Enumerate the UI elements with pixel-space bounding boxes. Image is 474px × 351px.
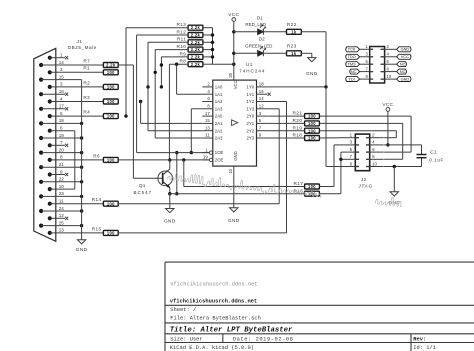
svg-text:7: 7: [60, 140, 63, 145]
resistor R19: [292, 125, 319, 133]
J1 pin 23: [39, 191, 83, 198]
resistor R23: [287, 44, 302, 56]
J2 pin 7: [342, 154, 360, 159]
header pin 10: [381, 74, 397, 79]
svg-text:100: 100: [308, 121, 316, 126]
svg-text:100: 100: [107, 201, 115, 206]
resistor R8: [180, 59, 203, 67]
svg-text:R2: R2: [83, 80, 90, 85]
label NC (header pin 8): [397, 69, 407, 74]
resistor R21: [292, 111, 319, 119]
svg-text:TCK: TCK: [348, 48, 356, 52]
svg-text:100: 100: [308, 114, 316, 119]
svg-text:J1: J1: [77, 39, 83, 44]
svg-text:R23: R23: [287, 44, 297, 49]
svg-text:vfichcikicshuusrch.ddns.net: vfichcikicshuusrch.ddns.net: [170, 299, 257, 305]
J2 pin 9: [342, 161, 360, 166]
svg-text:GND: GND: [164, 219, 176, 224]
svg-text:13: 13: [205, 125, 210, 130]
J1 pin 17: [39, 104, 68, 111]
svg-text:100: 100: [107, 84, 115, 89]
wire R12 right lead: [203, 34, 213, 36]
label GND (header pin 2): [397, 47, 411, 52]
svg-text:100: 100: [107, 114, 115, 119]
U1 pin 20 VCC: [228, 72, 233, 77]
svg-text:100: 100: [107, 99, 115, 104]
svg-text:RED_LED: RED_LED: [245, 22, 267, 27]
wire 2Y1 to R20: [267, 122, 304, 124]
J1 pin 11: [48, 199, 104, 206]
J1 pin 22: [39, 177, 83, 184]
wire R11 right lead: [203, 41, 213, 43]
header pin 9: [360, 74, 374, 79]
resistor R16: [293, 188, 319, 196]
J1 pin 1: [48, 53, 69, 60]
resistor R1: [83, 66, 118, 75]
svg-text:U1: U1: [246, 62, 253, 67]
resistor R9: [180, 51, 203, 59]
label VCC (header pin 4): [397, 54, 411, 59]
wire R7 to Q1 base: [118, 65, 156, 178]
svg-text:2Y2: 2Y2: [246, 128, 254, 133]
U1 pin 16 1Y1: [246, 89, 267, 97]
J1 pin 6: [48, 126, 75, 133]
svg-text:20: 20: [59, 147, 65, 152]
svg-text:GND: GND: [401, 48, 410, 52]
svg-text:17: 17: [59, 104, 65, 109]
J1 pin 21: [39, 162, 83, 169]
J2 pin 8: [366, 154, 384, 159]
svg-text:2: 2: [60, 67, 63, 72]
J1 pin 4: [48, 96, 104, 103]
U1 pin16 1Y1 no-connect: [268, 93, 271, 96]
resistor R2: [83, 80, 118, 89]
U1 pin 12 1Y3: [246, 104, 267, 112]
wire R8 branch to 1A1 feed: [177, 64, 203, 94]
ground (J2/C1): [388, 167, 400, 205]
svg-text:TDI: TDI: [349, 77, 355, 81]
svg-text:1A2: 1A2: [215, 99, 223, 104]
svg-text:2.2k: 2.2k: [191, 33, 201, 38]
wire 1OE feed: [137, 152, 210, 154]
resistor R3: [83, 95, 118, 104]
wire GND bus from pin 15 down: [81, 80, 83, 226]
svg-text:R18: R18: [292, 133, 302, 138]
label TDO (header pin 3): [346, 54, 360, 59]
svg-text:18: 18: [259, 82, 264, 87]
svg-text:10: 10: [59, 184, 65, 189]
U1 pin 2 1A0: [202, 82, 223, 90]
resistor R6: [93, 153, 118, 162]
svg-text:0.1uF: 0.1uF: [429, 157, 444, 162]
U1 pin 8 1A3: [202, 104, 223, 112]
U1 pin 10 GND stub: [228, 166, 234, 174]
J1 pin 14: [39, 60, 103, 67]
svg-text:TDO: TDO: [348, 55, 356, 59]
resistor R18: [292, 133, 319, 141]
title block frame: [165, 262, 474, 351]
svg-text:vfichcikicshuusrch.ddns.net: vfichcikicshuusrch.ddns.net: [170, 282, 257, 288]
svg-text:3: 3: [60, 82, 63, 87]
LED D1 RED_LED: [234, 16, 286, 35]
svg-text:GREEN_LED: GREEN_LED: [245, 43, 273, 48]
svg-text:2Y0: 2Y0: [246, 114, 254, 119]
wire R16 to J2 pin5/pin7: [319, 152, 342, 194]
resistor R7: [83, 58, 118, 67]
wire J2 pin4 row to C1: [384, 144, 421, 146]
svg-text:GND: GND: [233, 151, 238, 161]
wire R14 row to 1Y3: [118, 203, 279, 205]
svg-text:1A1: 1A1: [215, 92, 223, 97]
LED D2 GREEN_LED: [234, 36, 286, 56]
wire R10 drop to 2A3 net: [154, 50, 203, 138]
svg-text:20: 20: [228, 72, 233, 77]
svg-text:File: Altera ByteBlaster.sch: File: Altera ByteBlaster.sch: [170, 316, 261, 322]
svg-text:23: 23: [59, 191, 65, 196]
J1 pin 5: [48, 111, 104, 118]
svg-text:2.2k: 2.2k: [191, 40, 201, 45]
svg-text:1Y1: 1Y1: [246, 92, 254, 97]
svg-text:1k: 1k: [291, 51, 297, 56]
svg-text:R20: R20: [292, 118, 302, 123]
header pin 1: [360, 44, 374, 49]
svg-text:R4: R4: [83, 110, 90, 115]
svg-text:R14: R14: [92, 197, 102, 202]
svg-text:NC: NC: [351, 70, 357, 74]
U1 pin 11 2A3: [202, 133, 223, 141]
svg-text:18: 18: [59, 118, 65, 123]
svg-text:Title: Alter LPT ByteBlaster: Title: Alter LPT ByteBlaster: [170, 326, 293, 334]
svg-text:Rev:: Rev:: [413, 337, 426, 343]
svg-text:22: 22: [59, 177, 65, 182]
wire R23 to ground: [301, 52, 312, 54]
J2 pin 4: [366, 140, 384, 145]
svg-text:100: 100: [107, 70, 115, 75]
J1 pin 18: [39, 118, 83, 125]
svg-text:VCC: VCC: [228, 12, 239, 17]
svg-text:11: 11: [205, 133, 210, 138]
svg-text:2Y3: 2Y3: [246, 136, 254, 141]
wire R9 right lead: [203, 56, 213, 58]
svg-text:D2: D2: [259, 36, 265, 41]
svg-text:R12: R12: [176, 29, 186, 34]
wire 1OE to emitter link: [175, 151, 178, 195]
svg-text:VCC: VCC: [233, 80, 238, 89]
J1 pin 9: [48, 169, 69, 176]
label TCK (header pin 1): [346, 47, 360, 52]
svg-text:NC: NC: [400, 62, 406, 66]
wire 2Y2 to R19: [267, 130, 304, 132]
svg-text:R7: R7: [83, 58, 90, 63]
svg-text:16: 16: [259, 89, 264, 94]
wire R20 to J2 pin8: [319, 123, 402, 159]
connector J2 JTAG body: [355, 134, 373, 188]
ground (Q1 emitter): [164, 209, 176, 224]
U1 pin 19 2OE: [202, 155, 223, 163]
svg-text:1k: 1k: [291, 29, 297, 34]
svg-text:R8: R8: [180, 59, 187, 64]
resistor R20: [292, 118, 319, 126]
wire R21 to J2 pin6: [319, 116, 411, 152]
wire R13 right lead: [203, 27, 213, 29]
resistor R22: [287, 22, 302, 34]
wire 1OE-emitter link row: [170, 193, 305, 195]
svg-text:2.2k: 2.2k: [191, 47, 201, 52]
J1 pin 15: [39, 74, 82, 81]
U1 pin 3 2Y0: [246, 111, 267, 119]
svg-text:12: 12: [59, 213, 65, 218]
wire R17 to J2 pin3: [319, 145, 341, 187]
svg-text:10: 10: [372, 161, 377, 166]
J2 pin 10: [366, 161, 384, 166]
IC U1 74HC244 body: [213, 62, 266, 166]
svg-text:R21: R21: [292, 111, 302, 116]
svg-text:JTAG: JTAG: [357, 184, 372, 189]
svg-text:R6: R6: [93, 153, 100, 158]
svg-text:24: 24: [59, 206, 65, 211]
J1 pin 8: [48, 155, 104, 162]
U1 pin 1 1OE: [202, 147, 223, 155]
connector top-right 2x5 header body: [370, 47, 385, 84]
resistor R17: [293, 181, 319, 189]
svg-text:R13: R13: [176, 22, 186, 27]
header pin 3: [360, 52, 374, 57]
U1 pin 4 1A1: [202, 89, 223, 97]
svg-text:1Y3: 1Y3: [246, 106, 254, 111]
svg-text:TMS: TMS: [348, 62, 356, 66]
ground (DB25 bus): [76, 226, 88, 253]
U1 pin 5 2Y1: [246, 118, 267, 126]
svg-text:19: 19: [59, 133, 65, 138]
header pin 6: [381, 59, 397, 64]
wire J2 pin10 row to C1: [384, 165, 421, 168]
svg-text:GND: GND: [306, 71, 318, 76]
wire R13 drop to 2A0 net: [124, 28, 188, 118]
wire pull-up VCC bus: [211, 28, 236, 66]
wire 1Y0 to LED/J2 pin9: [267, 85, 355, 166]
wire Q1 collector to 2OE net: [168, 158, 171, 169]
wire R11 drop to 2A2 net: [146, 42, 202, 130]
label NC (header pin 6): [397, 62, 407, 67]
label GND (header pin 10): [397, 77, 411, 82]
wire R9 drop to 1A0 net: [160, 57, 188, 89]
svg-text:NC: NC: [400, 70, 406, 74]
svg-text:GND: GND: [76, 247, 88, 252]
svg-text:1A3: 1A3: [215, 106, 223, 111]
svg-text:1: 1: [60, 53, 63, 58]
wire R8 right lead: [203, 63, 213, 65]
wire U1 pin10 to ground: [233, 173, 235, 208]
wire 1Y3 to R14 row: [267, 109, 279, 204]
resistor R11: [177, 37, 203, 45]
svg-text:16: 16: [59, 89, 65, 94]
wire R6 to 2OE and R17 branch: [118, 158, 304, 186]
svg-text:21: 21: [59, 162, 65, 167]
svg-text:1Y0: 1Y0: [246, 85, 254, 90]
svg-text:100: 100: [107, 231, 115, 236]
svg-text:R1: R1: [83, 66, 90, 71]
wire R8 drop to 2OE net: [169, 63, 188, 160]
header pin 8: [381, 67, 397, 72]
wire R3 branch to 2A1: [139, 100, 202, 124]
power VCC (top): [228, 12, 239, 80]
J1 pin 25: [39, 220, 83, 227]
connector J1 DB25_Male body: [34, 39, 97, 242]
wire 2Y0 to R21: [267, 115, 304, 117]
resistor R13: [176, 22, 202, 30]
svg-text:Date: 2019-02-08: Date: 2019-02-08: [233, 337, 294, 343]
U1 pin 7 2Y2: [246, 125, 267, 133]
svg-text:VCC: VCC: [382, 102, 393, 107]
svg-text:R11: R11: [177, 37, 186, 42]
svg-text:R22: R22: [287, 22, 297, 27]
svg-text:2A1: 2A1: [215, 121, 223, 126]
J1 pin 2: [48, 67, 104, 74]
svg-text:2A2: 2A2: [215, 128, 223, 133]
svg-text:KiCad E.D.A. kicad (5.0.0): KiCad E.D.A. kicad (5.0.0): [170, 345, 254, 351]
svg-text:9: 9: [60, 169, 63, 174]
svg-text:1A0: 1A0: [215, 85, 223, 90]
svg-text:5: 5: [60, 111, 63, 116]
svg-text:74HC244: 74HC244: [239, 69, 265, 74]
svg-text:C1: C1: [430, 150, 437, 155]
resistor R10: [176, 44, 202, 52]
svg-text:2A3: 2A3: [215, 136, 223, 141]
svg-text:2.2k: 2.2k: [106, 62, 116, 67]
U1 pin 6 1A2: [202, 96, 223, 104]
U1 pin 17 2A0: [202, 111, 223, 119]
J1 pin 24: [39, 206, 83, 213]
svg-text:13: 13: [59, 228, 65, 233]
svg-text:11: 11: [59, 199, 64, 204]
resistor R4: [83, 110, 118, 119]
header pin 5: [360, 59, 374, 64]
svg-text:Size: User: Size: User: [170, 337, 202, 343]
svg-text:Id: 1/1: Id: 1/1: [413, 345, 436, 351]
header pin 4: [381, 52, 397, 57]
svg-text:14: 14: [259, 96, 264, 101]
title block text: [170, 282, 436, 351]
svg-text:GND: GND: [401, 77, 410, 81]
U1 pin 13 2A2: [202, 125, 223, 133]
svg-text:10: 10: [228, 168, 233, 173]
J2 pin 1: [342, 133, 360, 138]
transistor Q1 BC547: [134, 169, 173, 195]
J1 pin 3: [48, 82, 104, 89]
svg-text:2Y1: 2Y1: [246, 121, 254, 126]
capacitor C1 0.1uF: [417, 145, 444, 167]
wire R15 row to 1Y2: [118, 232, 286, 234]
label NC (header pin 7): [350, 69, 360, 74]
J2 pin 2: [366, 133, 384, 138]
svg-text:BC547: BC547: [134, 190, 153, 195]
wire Q1 emitter down: [168, 188, 171, 209]
svg-text:2.2k: 2.2k: [191, 25, 201, 30]
svg-text:R10: R10: [176, 44, 186, 49]
header pin 7: [360, 67, 374, 72]
svg-text:DB25_Male: DB25_Male: [68, 45, 97, 50]
svg-text:100: 100: [308, 136, 316, 141]
svg-text:2OE: 2OE: [215, 158, 224, 163]
J1 pin 7: [48, 140, 69, 147]
wire R18 to J2 pin1: [319, 137, 341, 139]
header pin 2: [381, 44, 397, 49]
svg-text:15: 15: [205, 118, 210, 123]
svg-text:1OE: 1OE: [215, 150, 224, 155]
J1 pin 16: [39, 89, 68, 96]
svg-text:1Y2: 1Y2: [246, 99, 254, 104]
svg-text:R15: R15: [92, 226, 102, 231]
ground (U1): [228, 208, 240, 223]
svg-text:2.2k: 2.2k: [191, 54, 201, 59]
svg-text:100: 100: [308, 128, 316, 133]
J1 pin 10: [48, 184, 75, 191]
resistor R14: [92, 197, 119, 206]
J2 pin 3: [342, 140, 360, 145]
svg-text:100: 100: [308, 184, 316, 189]
U1 pin 9 2Y3: [246, 133, 267, 141]
label TMS (header pin 5): [346, 62, 360, 67]
wire pin6-pin10 loop: [74, 131, 76, 189]
label TDI (header pin 9): [346, 77, 360, 82]
svg-text:2.2k: 2.2k: [191, 62, 201, 67]
J1 pin 12: [48, 213, 69, 220]
wire R22 to 1Y0 net: [301, 32, 326, 87]
svg-text:2A0: 2A0: [215, 114, 223, 119]
svg-text:R17: R17: [293, 181, 303, 186]
svg-text:VCC: VCC: [401, 55, 409, 59]
J2 pin 5: [342, 147, 360, 152]
svg-text:19: 19: [203, 155, 208, 160]
svg-text:4: 4: [60, 96, 63, 101]
svg-text:J2: J2: [361, 177, 367, 182]
svg-text:17: 17: [205, 111, 210, 116]
svg-text:25: 25: [59, 220, 65, 225]
svg-text:15: 15: [59, 74, 65, 79]
wire R19 to J2 pin2: [319, 131, 396, 138]
ground (LED D2): [306, 53, 318, 76]
svg-text:12: 12: [259, 104, 264, 109]
svg-text:R9: R9: [180, 51, 187, 56]
watermark scribble: [167, 173, 402, 207]
power VCC (right): [382, 102, 393, 147]
J1 pin 19: [39, 133, 83, 140]
svg-text:10: 10: [387, 74, 392, 79]
svg-text:D1: D1: [257, 16, 263, 21]
wire 1A3 feed: [190, 109, 203, 155]
wire 2Y3 to R18: [267, 137, 304, 139]
wire R10 right lead: [203, 49, 213, 51]
svg-text:6: 6: [60, 126, 63, 131]
svg-text:8: 8: [60, 155, 63, 160]
wire R12 drop to 1OE net: [137, 35, 189, 153]
svg-text:Q1: Q1: [139, 183, 146, 188]
resistor R15: [92, 226, 119, 235]
svg-text:GND: GND: [228, 218, 240, 223]
J1 pin 20: [39, 147, 83, 154]
svg-text:R3: R3: [83, 95, 90, 100]
svg-text:14: 14: [59, 60, 65, 65]
J2 pin 6: [366, 147, 384, 152]
J1 pin 13: [48, 228, 104, 235]
U1 pin 18 1Y0: [246, 82, 267, 90]
U1 pin 14 1Y2: [246, 96, 267, 104]
svg-text:R19: R19: [292, 125, 302, 130]
svg-text:100: 100: [107, 158, 115, 163]
wire 1Y2 to R15 row: [267, 102, 286, 233]
resistor R12: [176, 29, 202, 37]
svg-text:Sheet: /: Sheet: /: [170, 307, 196, 313]
